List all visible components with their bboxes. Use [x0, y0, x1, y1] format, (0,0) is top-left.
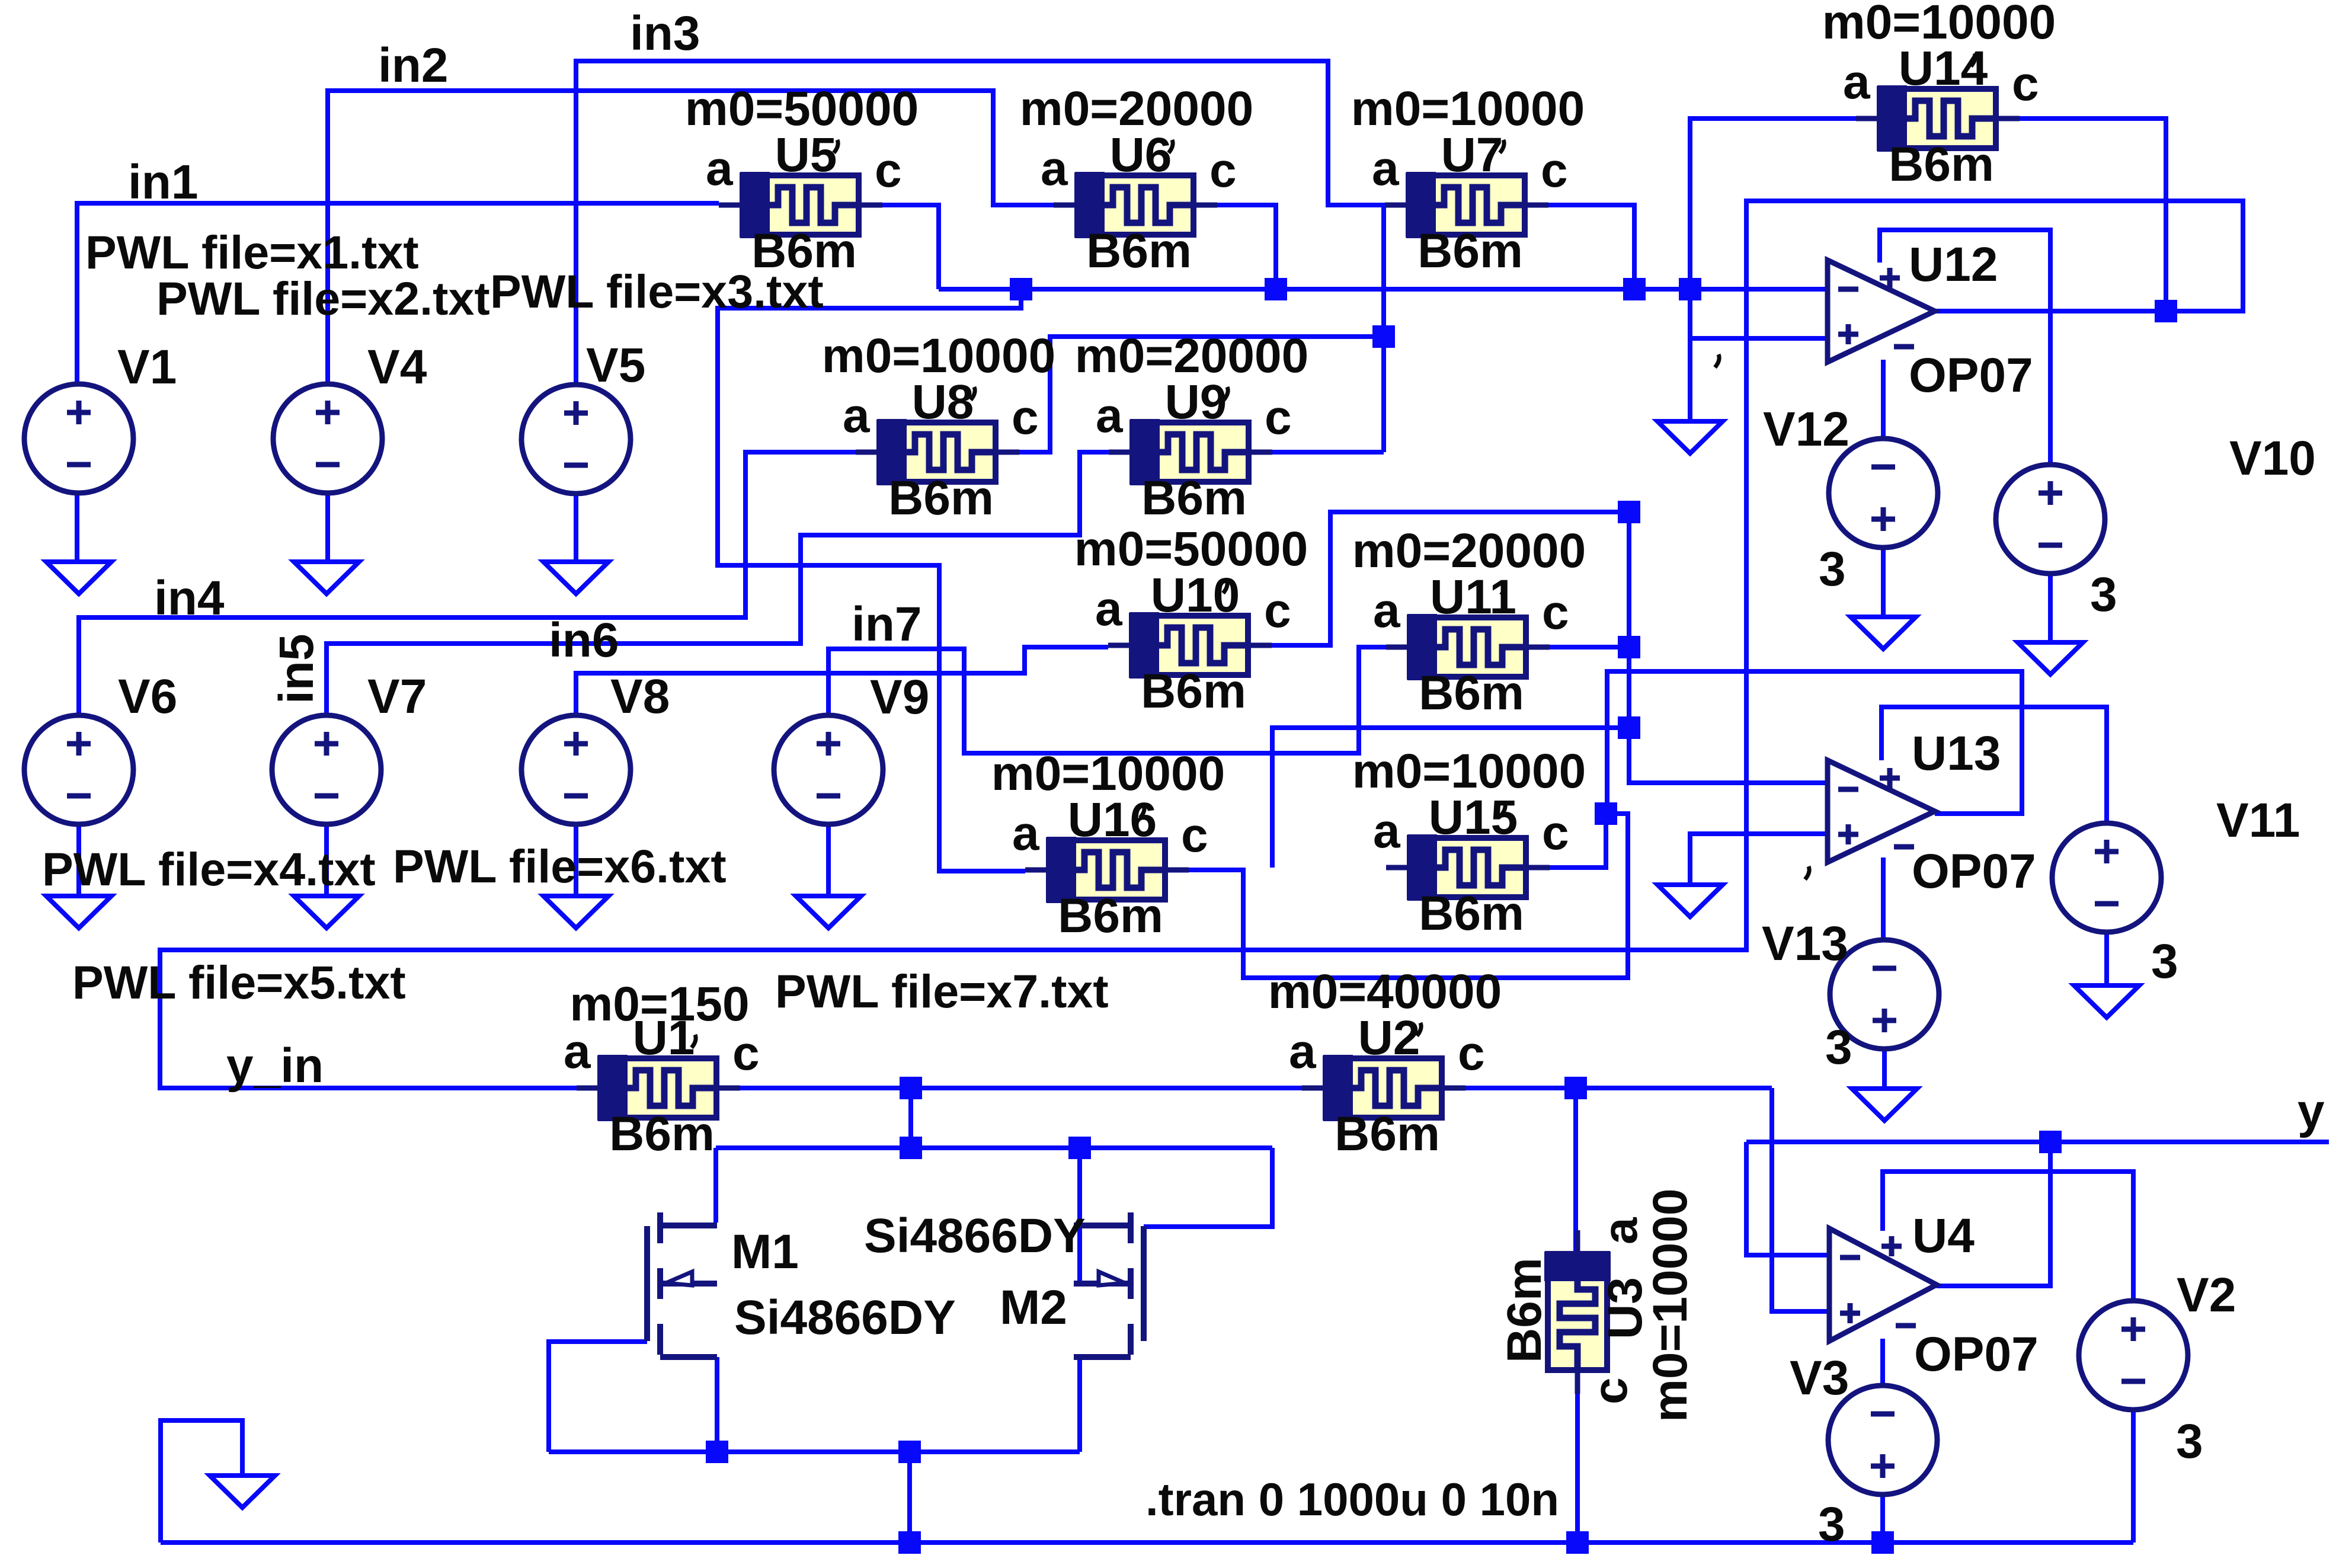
svg-text:B6m: B6m [1419, 666, 1524, 720]
svg-text:U11: U11 [1430, 570, 1516, 624]
svg-text:3: 3 [2151, 935, 2178, 988]
svg-text:V13: V13 [1762, 917, 1848, 971]
svg-text:in1: in1 [128, 155, 198, 209]
svg-text:a: a [1373, 584, 1401, 638]
svg-text:B6m: B6m [1335, 1107, 1440, 1161]
svg-text:B6m: B6m [1141, 471, 1247, 525]
svg-text:3: 3 [1818, 1497, 1845, 1551]
svg-text:a: a [1096, 389, 1124, 443]
svg-text:PWL file=x2.txt: PWL file=x2.txt [156, 272, 490, 325]
svg-text:a: a [706, 142, 734, 196]
svg-text:U6: U6 [1110, 128, 1172, 182]
svg-text:U7: U7 [1441, 128, 1503, 182]
svg-text:OP07: OP07 [1912, 844, 2036, 898]
svg-text:m0=10000: m0=10000 [1643, 1189, 1697, 1422]
svg-text:3: 3 [1819, 542, 1846, 596]
svg-text:c: c [1458, 1026, 1485, 1080]
svg-text:OP07: OP07 [1914, 1327, 2039, 1381]
svg-text:PWL file=x7.txt: PWL file=x7.txt [775, 965, 1109, 1017]
svg-text:PWL file=x3.txt: PWL file=x3.txt [490, 265, 824, 318]
svg-text:U15: U15 [1429, 791, 1518, 844]
svg-text:.tran 0 1000u 0 10n: .tran 0 1000u 0 10n [1145, 1473, 1559, 1525]
svg-text:PWL file=x4.txt: PWL file=x4.txt [42, 843, 376, 895]
svg-text:B6m: B6m [1058, 889, 1163, 943]
svg-text:c: c [1265, 391, 1292, 444]
svg-text:c: c [2012, 57, 2039, 111]
svg-text:in4: in4 [154, 571, 225, 625]
svg-text:U5: U5 [775, 128, 837, 182]
svg-text:OP07: OP07 [1909, 348, 2033, 402]
svg-text:Si4866DY: Si4866DY [864, 1209, 1086, 1263]
svg-text:U8: U8 [912, 375, 974, 429]
svg-text:B6m: B6m [888, 471, 994, 525]
svg-text:PWL file=x1.txt: PWL file=x1.txt [85, 226, 419, 279]
svg-text:a: a [1373, 804, 1401, 858]
svg-text:3: 3 [1825, 1020, 1852, 1074]
svg-text:U16: U16 [1068, 793, 1157, 847]
svg-text:V11: V11 [2216, 793, 2300, 847]
svg-text:a: a [1372, 142, 1400, 196]
svg-text:V3: V3 [1790, 1351, 1849, 1405]
svg-text:in7: in7 [852, 597, 921, 651]
svg-text:B6m: B6m [1419, 887, 1524, 940]
svg-text:U10: U10 [1151, 568, 1240, 622]
svg-text:c: c [1542, 806, 1569, 860]
svg-text:a: a [1012, 807, 1040, 860]
svg-text:c: c [1583, 1377, 1637, 1404]
svg-text:PWL file=x5.txt: PWL file=x5.txt [72, 956, 406, 1009]
svg-text:V4: V4 [367, 340, 427, 394]
svg-text:V7: V7 [367, 670, 427, 724]
svg-text:a: a [1041, 142, 1068, 196]
svg-text:U1: U1 [633, 1011, 695, 1065]
svg-text:U12: U12 [1909, 238, 1998, 292]
svg-text:B6m: B6m [1086, 224, 1192, 278]
svg-text:PWL file=x6.txt: PWL file=x6.txt [393, 840, 727, 892]
svg-text:V1: V1 [117, 340, 177, 394]
svg-text:M2: M2 [1000, 1281, 1067, 1335]
svg-text:in6: in6 [549, 613, 619, 667]
svg-text:y: y [2297, 1084, 2325, 1138]
svg-text:M1: M1 [731, 1225, 799, 1279]
svg-text:c: c [1264, 584, 1291, 638]
svg-text:B6m: B6m [1889, 137, 1994, 191]
svg-text:V6: V6 [118, 670, 177, 724]
svg-text:V8: V8 [610, 670, 670, 724]
svg-text:V12: V12 [1763, 402, 1849, 456]
svg-text:B6m: B6m [1497, 1257, 1551, 1363]
svg-text:c: c [732, 1026, 760, 1080]
svg-text:V2: V2 [2177, 1268, 2236, 1322]
svg-text:B6m: B6m [609, 1107, 715, 1161]
svg-text:a: a [1593, 1217, 1647, 1244]
svg-text:V9: V9 [870, 670, 929, 724]
svg-text:U2: U2 [1358, 1011, 1420, 1065]
svg-text:c: c [1012, 391, 1039, 444]
svg-text:in2: in2 [378, 39, 448, 92]
svg-text:3: 3 [2176, 1415, 2203, 1468]
svg-text:c: c [1542, 585, 1569, 639]
svg-text:a: a [1843, 55, 1871, 109]
svg-text:B6m: B6m [1417, 224, 1523, 278]
svg-text:V5: V5 [586, 338, 645, 392]
svg-text:U13: U13 [1912, 727, 2001, 780]
svg-text:3: 3 [2090, 568, 2117, 622]
svg-text:in5: in5 [270, 634, 324, 704]
svg-text:a: a [1095, 582, 1123, 636]
svg-text:c: c [1209, 143, 1237, 197]
svg-text:U9: U9 [1165, 375, 1227, 429]
svg-text:c: c [875, 143, 902, 197]
svg-text:Si4866DY: Si4866DY [734, 1291, 956, 1345]
svg-text:U4: U4 [1912, 1209, 1975, 1263]
svg-text:U14: U14 [1899, 41, 1988, 95]
svg-text:a: a [843, 389, 871, 443]
svg-text:a: a [1289, 1025, 1317, 1079]
svg-text:y_in: y_in [226, 1039, 324, 1093]
svg-text:c: c [1541, 143, 1568, 197]
svg-text:a: a [564, 1025, 591, 1079]
svg-text:c: c [1181, 808, 1208, 862]
svg-text:in3: in3 [630, 7, 700, 60]
svg-text:B6m: B6m [1141, 664, 1246, 718]
svg-text:V10: V10 [2229, 431, 2316, 485]
